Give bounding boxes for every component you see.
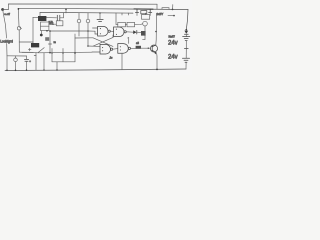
block label box lower — [31, 43, 39, 47]
IC block left edge — [32, 17, 34, 47]
ground g-c2 bar2 — [99, 21, 102, 23]
svg-text:401: 401 — [49, 22, 54, 26]
tick t4 — [128, 13, 130, 15]
wire stub above J1 — [172, 5, 174, 10]
diode D3 bar — [149, 12, 152, 14]
block U1 divider — [41, 25, 49, 27]
trimmer P2 body — [86, 19, 90, 23]
wire C1 to rail3 — [60, 13, 64, 18]
wire gate A input1 — [93, 27, 98, 29]
wire left vertical — [3, 10, 7, 39]
wire drop x15 — [15, 56, 17, 58]
node bottom-left junction — [6, 69, 8, 71]
diode D2 bar — [135, 12, 138, 14]
switch S2 arm — [38, 48, 44, 53]
wire P2 down — [87, 23, 89, 46]
svg-text:Lock/grd: Lock/grd — [0, 40, 13, 44]
wire into R3 — [116, 13, 118, 25]
wire branch to IC at y42 — [19, 41, 33, 43]
trimmer P1 body — [77, 19, 81, 23]
battery BT2 bar2 — [184, 59, 188, 61]
transistor Q1 base bar — [151, 46, 153, 52]
wire rail B right drop — [186, 10, 188, 30]
node LP2 rail — [15, 70, 17, 72]
wire emitter down — [156, 53, 158, 69]
wire U2d ground drop — [121, 53, 123, 69]
wire bus y31 — [50, 30, 95, 32]
wire drop x36 — [35, 53, 37, 70]
lamp LP1 box — [142, 15, 150, 20]
diode D7 triangle — [184, 31, 188, 34]
node collector tap — [155, 31, 157, 33]
wire rail3 left drop — [39, 12, 41, 16]
wire y38 bus — [75, 37, 93, 39]
wire X right top stub — [112, 35, 114, 37]
diode D5 box — [136, 46, 141, 49]
node dot mid — [40, 34, 43, 37]
resistor R6 body — [141, 11, 147, 14]
wire vertical from rail B x18 — [17, 9, 20, 27]
transistor Q1 emitter — [152, 50, 156, 52]
trimmer P2 drop — [87, 13, 89, 19]
capacitor C4 plate1 — [24, 58, 28, 60]
wire gate C input low — [92, 51, 100, 53]
wire X left to gate C — [93, 45, 100, 47]
gate U2a body — [98, 26, 109, 36]
capacitor C4 plate2 — [25, 60, 28, 62]
gate U2d bubble — [128, 47, 130, 49]
wire S1 down — [18, 30, 20, 52]
tick x36 — [34, 55, 36, 57]
wire BT2 to rail — [185, 63, 187, 69]
block X1 label box — [38, 16, 46, 21]
wire x50 vertical — [49, 31, 51, 53]
wire U2c out — [113, 48, 118, 51]
battery cell bar — [184, 47, 188, 49]
resistor R3 box — [118, 22, 126, 26]
wire ladder y53 — [22, 51, 92, 54]
wire ladder drop x44 — [43, 53, 45, 70]
wire ladder drop x63 — [62, 53, 64, 62]
switch S1 contact — [17, 27, 20, 30]
svg-text:24v: 24v — [168, 41, 178, 47]
diode D2 stem — [136, 9, 138, 12]
wire ladder stub up x63 — [62, 49, 64, 54]
wire gate C input2 — [88, 45, 93, 47]
diode D2 tail — [136, 13, 138, 16]
wire left vertical lower — [6, 44, 8, 71]
wire input to top rail — [3, 4, 9, 10]
wire U2b out — [126, 31, 133, 33]
wire BT1 to BT2 — [185, 41, 187, 48]
transistor Q1 emitter arrow — [154, 52, 156, 54]
wire LP2 down — [15, 62, 17, 71]
wire U1 to box link — [49, 23, 56, 25]
mark plus — [28, 49, 31, 51]
svg-text:Nw57: Nw57 — [169, 36, 176, 39]
capacitor C1 plate1 — [56, 15, 58, 20]
node x50 bottom — [49, 52, 51, 54]
wire R4 to gate D drop — [128, 38, 130, 44]
wire D5 to Q1 base — [141, 47, 150, 49]
diode D1 triangle — [133, 30, 136, 34]
wire bottom rail — [5, 69, 186, 71]
wire ladder drop x52 — [51, 53, 53, 62]
wire ladder right edge — [74, 53, 76, 62]
switch S1 arm — [20, 27, 22, 29]
node U1 dot — [46, 30, 48, 32]
gate U2c body — [100, 44, 111, 54]
node C2 tap — [99, 12, 101, 14]
node base dot — [148, 48, 149, 49]
block small box right — [56, 21, 63, 26]
node input terminal — [1, 8, 4, 11]
node right drop dot — [185, 29, 187, 31]
wire U1 to dot — [40, 31, 42, 34]
wire rail A drop — [156, 4, 158, 9]
wire ladder y62 — [52, 61, 75, 63]
block U1 box — [41, 22, 49, 31]
wire drop x26 — [26, 56, 28, 59]
capacitor C2 under rail3 — [99, 13, 101, 19]
gate U2d body — [118, 44, 128, 54]
node emitter rail — [156, 69, 158, 71]
gate U2b bubble — [124, 31, 126, 33]
wire drop serif — [128, 37, 129, 39]
wire R4 out — [135, 23, 143, 26]
wire LP1 top — [145, 13, 147, 15]
wire bus step into gate A — [95, 31, 98, 34]
node bus dot — [87, 30, 89, 32]
gate U2d pin dots — [120, 46, 121, 47]
gate U2c bubble — [111, 48, 113, 50]
wire branch to IC at y52 — [19, 51, 33, 53]
diode D3 stem — [149, 9, 151, 12]
wire x75 vertical — [74, 34, 76, 53]
svg-text:24v: 24v — [168, 55, 178, 61]
wire ladder stub up x52 — [51, 49, 53, 54]
wire U2d out — [131, 47, 136, 49]
node mark dot — [173, 15, 175, 17]
diode D1 bar — [136, 30, 138, 34]
wire C4 down — [26, 61, 28, 70]
battery BT1 bar1 — [183, 36, 190, 38]
diode D3 tail — [149, 13, 151, 16]
wire K1 down foot — [143, 36, 145, 40]
wire cell down — [185, 49, 187, 58]
node x50 top — [49, 30, 51, 32]
lamp LP2 circle — [14, 58, 18, 62]
wire D1 out — [137, 31, 141, 33]
lamp LP1 circle — [143, 21, 148, 26]
blob component — [45, 37, 49, 41]
resistor R4 box — [127, 22, 135, 26]
node J1 — [172, 9, 174, 11]
wire top rail A — [9, 3, 158, 5]
wire ladder drop x57 — [56, 62, 58, 70]
svg-text:c.off: c.off — [4, 12, 10, 16]
tick t3 — [121, 13, 123, 15]
battery BT2 bar1 — [182, 57, 189, 59]
wire R3-R4 — [125, 24, 127, 26]
node P2 bottom — [87, 45, 89, 47]
wire rail3 — [40, 11, 133, 14]
wire X cross 2 — [93, 37, 113, 46]
wire stub mark right — [168, 15, 173, 17]
resistor tick x50 — [48, 43, 51, 45]
battery BT2 bar3 — [185, 61, 187, 63]
battery BT1 bar2 — [184, 38, 188, 40]
gate U2c pin dots — [102, 47, 103, 48]
node ladder dots — [43, 69, 45, 71]
gate U2a pin dots — [100, 28, 101, 29]
wire X cross 1 — [93, 38, 113, 47]
trimmer P1 drop — [78, 13, 80, 19]
capacitor C1 plate2 — [59, 15, 61, 20]
wire LP1 down — [144, 26, 146, 36]
transistor Q1 collector — [152, 45, 156, 47]
node rail B tap — [18, 8, 20, 10]
diode D7 bar — [184, 33, 188, 35]
node link dot — [65, 8, 67, 10]
fuse jog — [162, 8, 169, 10]
gate U2a bubble — [108, 30, 110, 32]
wire bottom left link — [7, 55, 27, 57]
component K1 blob — [141, 31, 146, 36]
wire D7 down — [185, 34, 187, 36]
wire collector up — [155, 14, 158, 45]
wire rail B — [18, 8, 188, 9]
transistor Q1 circle — [150, 45, 157, 52]
wire U2a out — [110, 30, 113, 32]
battery BT1 bar3 — [185, 40, 187, 42]
gate U2b body — [114, 27, 124, 37]
ground g-c2 bar1 — [97, 18, 103, 20]
wire rail3-railB link — [65, 9, 67, 13]
node x75 junction — [74, 52, 76, 54]
gate U2b pin dots — [116, 29, 117, 30]
wire P1 down — [78, 23, 80, 36]
rail B dark segment — [134, 8, 153, 10]
svg-text:2xBY: 2xBY — [157, 12, 164, 16]
wire IC top — [33, 16, 57, 19]
